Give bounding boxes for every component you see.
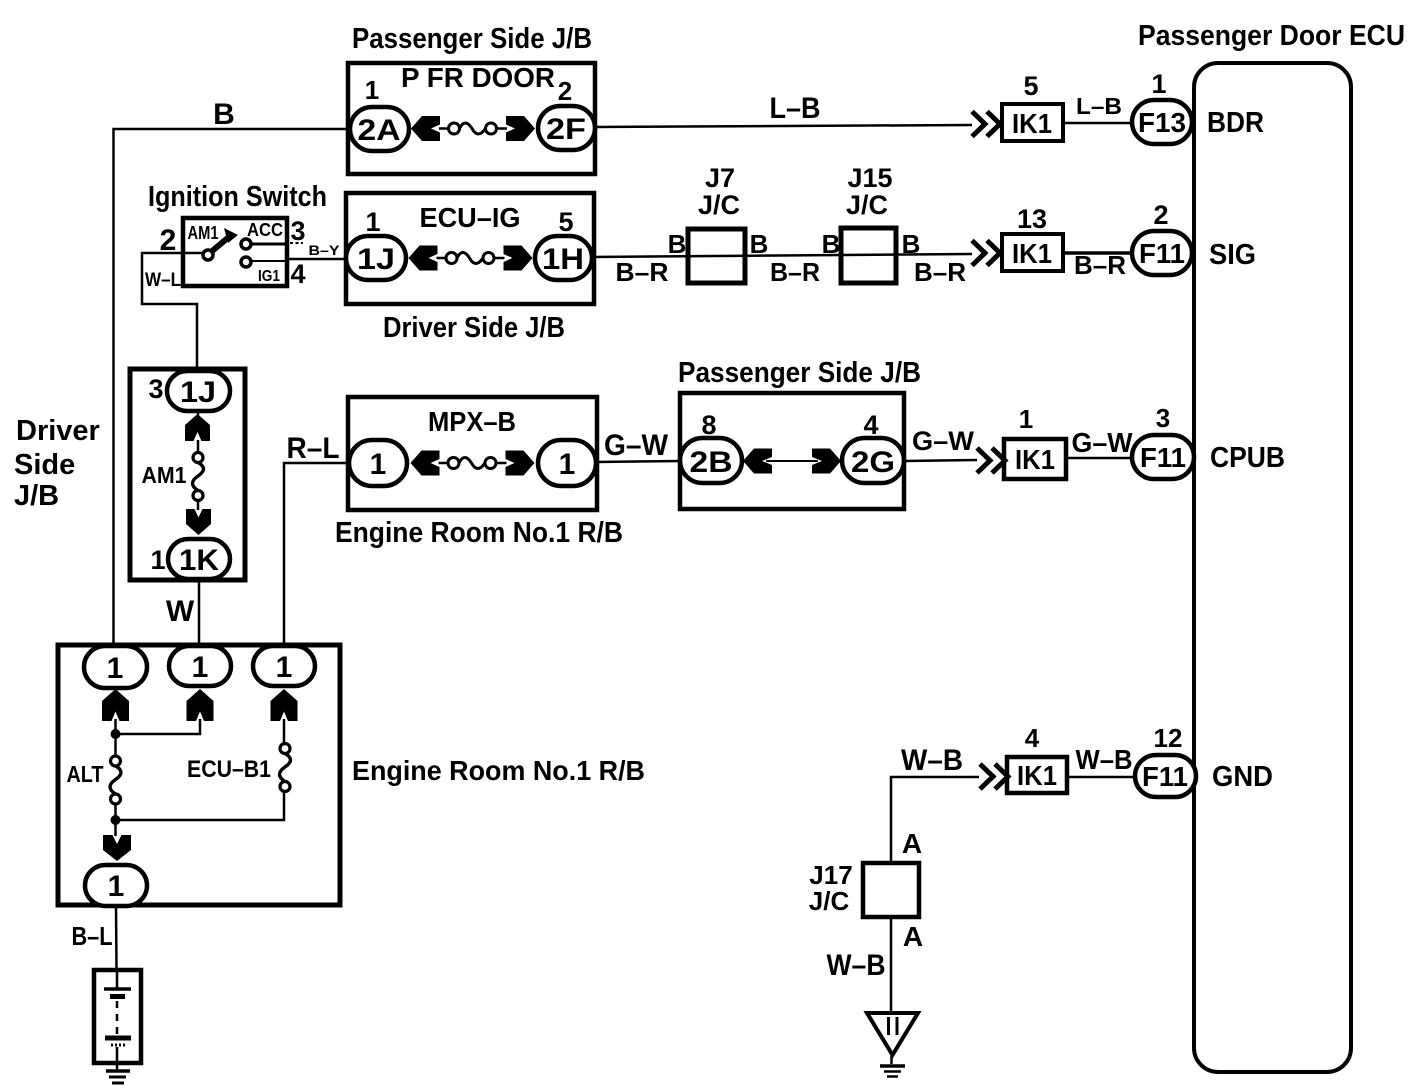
svg-text:W: W (166, 595, 195, 628)
svg-text:B–R: B–R (914, 257, 966, 287)
svg-text:BDR: BDR (1207, 107, 1264, 139)
svg-text:1: 1 (107, 652, 124, 685)
svg-text:1: 1 (559, 448, 576, 481)
svg-text:1: 1 (365, 207, 380, 237)
svg-text:B: B (213, 98, 235, 131)
svg-text:A: A (903, 921, 923, 952)
svg-text:1: 1 (1151, 69, 1166, 99)
svg-text:3: 3 (148, 374, 163, 404)
svg-text:P FR DOOR: P FR DOOR (401, 62, 555, 93)
svg-text:4: 4 (1025, 723, 1040, 753)
svg-text:1: 1 (108, 870, 125, 903)
svg-text:IK1: IK1 (1012, 108, 1052, 139)
svg-text:W–L: W–L (145, 270, 181, 291)
svg-text:1: 1 (365, 75, 379, 105)
svg-text:B: B (668, 229, 687, 259)
svg-text:W–B: W–B (827, 949, 886, 982)
svg-text:IK1: IK1 (1012, 238, 1052, 269)
svg-text:8: 8 (701, 410, 716, 440)
svg-text:1J: 1J (180, 376, 216, 409)
svg-text:G–W: G–W (1072, 427, 1134, 458)
svg-text:R–L: R–L (287, 432, 340, 465)
svg-text:B: B (822, 229, 841, 259)
svg-text:2B: 2B (690, 446, 733, 479)
svg-text:Driver Side J/B: Driver Side J/B (383, 312, 565, 344)
svg-text:2G: 2G (851, 446, 895, 479)
svg-text:3: 3 (290, 216, 305, 246)
svg-text:1H: 1H (542, 243, 584, 276)
svg-text:W–B: W–B (1076, 744, 1133, 775)
svg-text:ACC: ACC (247, 220, 283, 240)
svg-text:2: 2 (1153, 200, 1168, 230)
svg-text:Ignition Switch: Ignition Switch (148, 181, 327, 213)
svg-text:1: 1 (1019, 404, 1033, 434)
svg-text:3: 3 (1156, 403, 1170, 433)
svg-text:1K: 1K (179, 544, 219, 577)
svg-text:J/C: J/C (809, 886, 850, 916)
svg-text:Engine Room No.1 R/B: Engine Room No.1 R/B (335, 517, 623, 549)
svg-text:F11: F11 (1139, 238, 1185, 269)
svg-text:13: 13 (1017, 204, 1047, 234)
svg-text:B–R: B–R (1074, 250, 1126, 280)
svg-text:CPUB: CPUB (1210, 442, 1285, 474)
svg-text:B–L: B–L (72, 921, 113, 951)
svg-text:J15: J15 (847, 163, 892, 193)
svg-text:Passenger Side J/B: Passenger Side J/B (352, 23, 592, 55)
svg-text:J/C: J/C (698, 190, 740, 220)
svg-text:2A: 2A (358, 114, 401, 147)
svg-text:Engine Room No.1 R/B: Engine Room No.1 R/B (352, 755, 645, 786)
svg-text:B–R: B–R (616, 257, 669, 287)
svg-text:B: B (902, 229, 921, 259)
svg-text:1: 1 (276, 651, 293, 684)
svg-text:1: 1 (192, 651, 209, 684)
svg-text:G–W: G–W (912, 426, 975, 456)
svg-text:MPX–B: MPX–B (428, 406, 516, 437)
svg-text:IK1: IK1 (1015, 444, 1055, 475)
svg-text:4: 4 (863, 410, 878, 440)
svg-text:2: 2 (160, 224, 177, 257)
svg-text:12: 12 (1154, 723, 1183, 753)
svg-text:AM1: AM1 (188, 223, 219, 243)
svg-text:1: 1 (370, 448, 387, 481)
svg-text:Passenger Door ECU: Passenger Door ECU (1138, 20, 1405, 52)
svg-text:ECU–IG: ECU–IG (420, 202, 521, 233)
svg-text:W–B: W–B (901, 744, 963, 777)
svg-text:B–R: B–R (770, 257, 820, 287)
svg-text:Side: Side (14, 449, 75, 481)
svg-text:Passenger Side J/B: Passenger Side J/B (678, 357, 921, 389)
svg-text:J7: J7 (705, 163, 735, 193)
svg-text:J/B: J/B (14, 480, 59, 512)
svg-text:L–B: L–B (770, 92, 821, 125)
svg-text:A: A (902, 828, 922, 859)
svg-text:SIG: SIG (1209, 239, 1256, 271)
svg-text:IG1: IG1 (258, 268, 280, 285)
svg-text:1J: 1J (357, 243, 395, 276)
svg-text:F11: F11 (1140, 442, 1186, 473)
svg-text:F11: F11 (1142, 761, 1188, 792)
svg-text:Driver: Driver (16, 415, 100, 447)
svg-text:2F: 2F (546, 113, 586, 146)
svg-text:GND: GND (1212, 761, 1273, 793)
svg-text:IK1: IK1 (1017, 760, 1057, 791)
svg-text:5: 5 (558, 207, 573, 237)
svg-text:B: B (750, 229, 769, 259)
svg-text:ECU–B1: ECU–B1 (187, 756, 271, 783)
svg-text:2: 2 (558, 76, 572, 106)
svg-text:1: 1 (150, 545, 165, 575)
svg-text:4: 4 (290, 259, 305, 289)
svg-text:G–W: G–W (604, 429, 669, 462)
svg-text:L–B: L–B (1076, 93, 1122, 119)
svg-text:B–Y: B–Y (309, 242, 341, 258)
svg-text:ALT: ALT (67, 761, 104, 787)
svg-text:5: 5 (1023, 71, 1038, 101)
svg-text:J/C: J/C (846, 190, 888, 220)
svg-text:F13: F13 (1138, 107, 1186, 138)
svg-text:AM1: AM1 (142, 462, 187, 488)
